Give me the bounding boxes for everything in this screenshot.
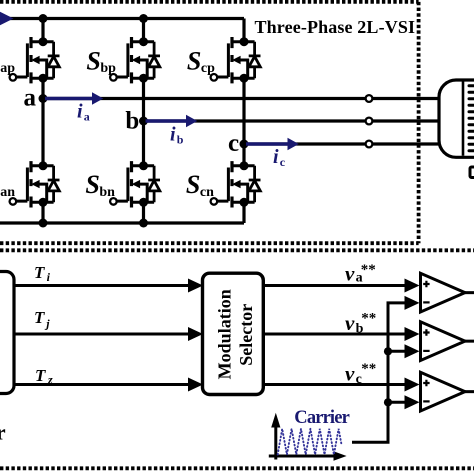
wire: phase c output — [244, 142, 439, 145]
DC input arrow — [0, 12, 14, 25]
wire: T_j line — [14, 333, 190, 336]
dashed box: Three-Phase 2L-VSI enclosure — [0, 2, 419, 243]
svg-text:ap: ap — [0, 61, 15, 76]
transistor S_bn — [110, 161, 160, 207]
open terminal on phase c — [366, 141, 373, 148]
svg-text:b: b — [177, 133, 184, 147]
motor (clipped at right edge) — [439, 80, 474, 157]
svg-text:T: T — [34, 308, 45, 327]
transistor S_an — [10, 161, 60, 207]
svg-text:a: a — [84, 110, 90, 124]
transistor S_cp — [211, 37, 261, 83]
wire: v_b** line — [263, 333, 406, 336]
svg-text:S: S — [86, 46, 100, 75]
svg-text:v: v — [345, 311, 355, 335]
svg-text:v: v — [345, 361, 355, 385]
node c — [240, 140, 249, 149]
comparator 1 — [421, 273, 474, 312]
comparator 3 — [421, 372, 474, 411]
svg-text:T: T — [35, 366, 46, 385]
open terminal on phase a — [366, 95, 373, 102]
svg-text:bn: bn — [99, 185, 115, 200]
branch to comparator 2 minus — [384, 347, 392, 355]
node b — [139, 117, 148, 126]
wire: phase a output — [43, 97, 439, 100]
svg-text:T: T — [34, 263, 45, 282]
svg-text:b: b — [125, 108, 139, 135]
transistor S_cn — [211, 161, 261, 207]
dashed box: controller enclosure — [0, 250, 474, 468]
svg-text:**: ** — [361, 310, 376, 326]
junction dots on rails — [39, 14, 48, 23]
wire: leg b verticals — [142, 19, 145, 224]
svg-text:an: an — [0, 185, 15, 200]
wire: phase b output — [144, 119, 440, 122]
small box label below motor (clipped) — [470, 167, 474, 178]
wire: leg a verticals — [41, 19, 44, 224]
svg-text:i: i — [47, 270, 51, 284]
svg-text:bp: bp — [100, 61, 116, 76]
svg-text:a: a — [24, 85, 37, 112]
wire: v_c** line — [263, 383, 406, 386]
open terminal on phase b — [366, 118, 373, 125]
carrier triangular waveform — [278, 429, 342, 455]
wire: negative DC rail — [0, 221, 244, 224]
carrier axes — [269, 425, 335, 460]
comparator 2 — [421, 322, 474, 361]
svg-text:Selector: Selector — [236, 304, 256, 366]
controller box (clipped at left edge) — [0, 272, 14, 394]
svg-text:S: S — [187, 46, 201, 75]
wire: leg c verticals — [242, 19, 245, 224]
svg-text:S: S — [85, 170, 99, 199]
svg-text:j: j — [44, 317, 50, 331]
svg-text:**: ** — [361, 361, 376, 377]
svg-text:i: i — [273, 146, 279, 168]
Modulation Selector box — [203, 273, 264, 394]
svg-text:c: c — [228, 130, 239, 157]
svg-text:cp: cp — [201, 61, 215, 76]
wire: T_i line — [14, 284, 190, 287]
wire: positive DC rail — [0, 17, 244, 20]
svg-text:**: ** — [361, 262, 376, 278]
svg-text:S: S — [186, 170, 200, 199]
svg-text:Three-Phase 2L-VSI: Three-Phase 2L-VSI — [255, 17, 416, 37]
transistor S_bp — [110, 37, 160, 83]
svg-text:z: z — [47, 373, 53, 387]
svg-text:cn: cn — [200, 185, 214, 200]
current arrow i_b — [146, 119, 188, 122]
node a — [39, 94, 48, 103]
wire: T_z line — [14, 383, 190, 386]
transistor S_ap — [10, 37, 60, 83]
current arrow i_c — [246, 142, 289, 145]
svg-text:Carrier: Carrier — [294, 408, 350, 428]
current arrow i_a — [45, 97, 93, 100]
wire: carrier bus — [352, 303, 406, 442]
svg-text:i: i — [77, 101, 83, 123]
svg-text:i: i — [170, 124, 176, 146]
svg-text:v: v — [345, 262, 355, 286]
svg-text:r: r — [0, 420, 6, 445]
branch to comparator 3 minus — [384, 398, 392, 406]
wire: v_a** line — [263, 284, 406, 287]
svg-text:c: c — [280, 155, 286, 169]
svg-text:Modulation: Modulation — [215, 289, 235, 379]
